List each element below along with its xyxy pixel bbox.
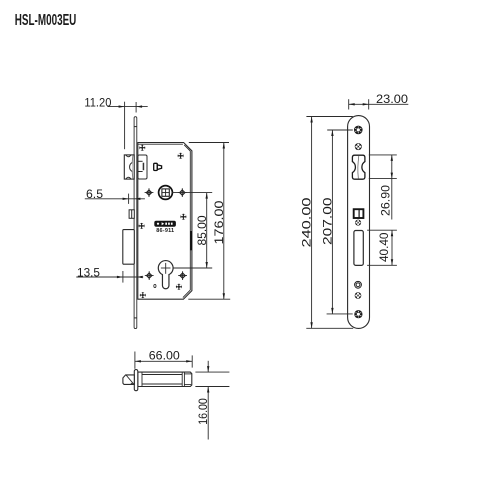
svg-text:66.00: 66.00 [149,348,180,362]
plain double-circle hole [355,281,362,288]
cross screw upper [355,143,362,150]
svg-text:23.00: 23.00 [376,92,408,106]
faceplate bar (top view) [134,370,138,391]
svg-text:6.5: 6.5 [86,187,103,201]
lock case outline with chamfered right corners [138,143,192,300]
11.20 [107,106,147,108]
torx screw top [354,126,363,135]
hub side cross marks (diamonds) [145,188,187,280]
svg-text:HSL-M003EU: HSL-M003EU [15,12,77,29]
tiny 0 mark [154,284,156,287]
svg-text:26.90: 26.90 [379,185,393,216]
torx screw bottom [354,310,362,318]
latch bolt (front, left of plate) [124,155,134,179]
svg-text:86-911: 86-911 [156,228,174,234]
cross screw lower [355,292,362,299]
svg-text:85.00: 85.00 [195,215,209,245]
26.90 [369,154,397,156]
spindle hub (square follower) [159,186,173,200]
240.00 [306,116,352,118]
front screws (phillips) [139,145,187,298]
207.00 [327,129,353,131]
svg-text:11.20: 11.20 [84,95,111,109]
176.00 [189,142,229,144]
case inner edge lines [138,144,191,297]
6.5 leader [85,198,145,200]
latch housing inside case [138,155,147,179]
40.40 [367,229,397,231]
svg-text:40.40: 40.40 [377,232,391,262]
23.00 [349,103,409,105]
body (top view of case) [138,372,192,386]
brand badge [154,221,176,234]
16.00 [195,371,229,373]
13.5 leader [76,276,143,278]
hub square hole (side) [354,209,364,218]
cylinder slot [354,231,363,266]
faceplate (front view vertical bar) [134,117,137,329]
dark slot on case right edge [190,231,192,250]
svg-text:207.00: 207.00 [320,197,334,245]
auxiliary bolt (small rect on plate) [129,210,134,219]
latch head (top view) [123,375,134,385]
svg-text:13.5: 13.5 [77,266,100,280]
deadlock guard pin (bullet shape) [154,163,162,170]
latch cutout (bowtie) [352,155,365,179]
faceplate outline [348,116,370,329]
cross screw middle [355,220,361,226]
deadbolt (front, left of plate) [123,230,135,265]
66.00 [135,360,192,362]
svg-text:240.00: 240.00 [300,197,314,247]
svg-text:176.00: 176.00 [212,200,226,244]
85.00 [172,192,212,194]
svg-text:16.00: 16.00 [196,398,210,425]
euro cylinder hole [158,261,173,289]
